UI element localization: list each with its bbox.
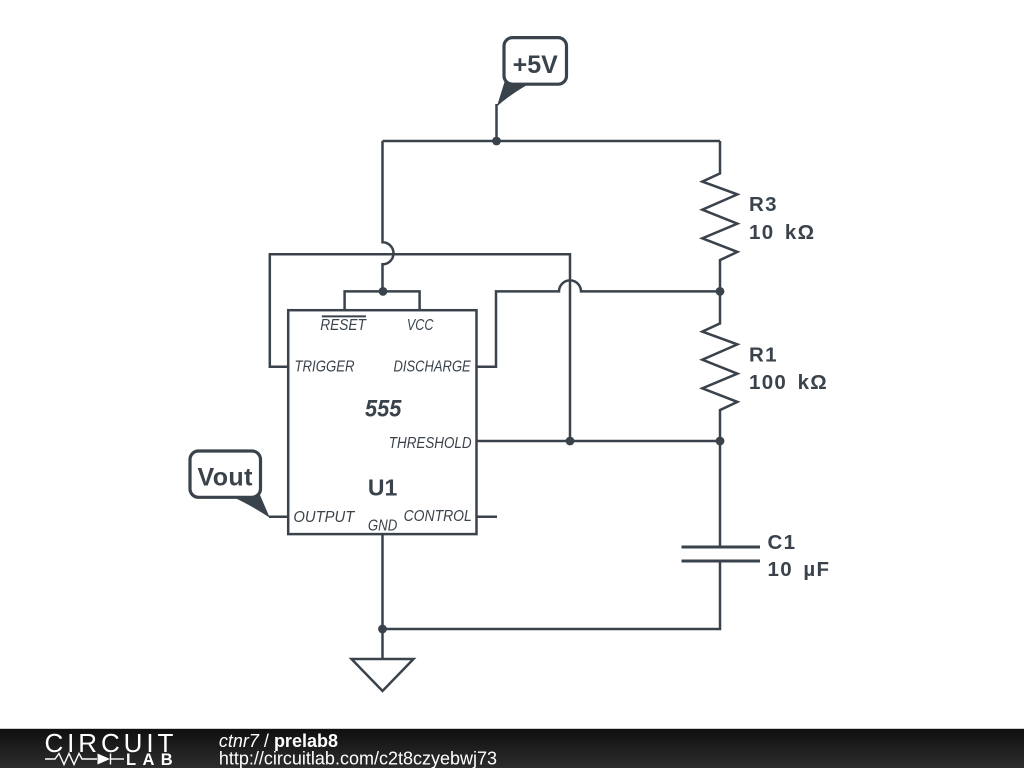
- svg-text:CONTROL: CONTROL: [404, 508, 472, 525]
- svg-text:10 µF: 10 µF: [768, 558, 831, 581]
- svg-text:R3: R3: [749, 193, 778, 216]
- svg-text:Vout: Vout: [198, 463, 254, 491]
- svg-text:OUTPUT: OUTPUT: [293, 509, 355, 526]
- svg-text:VCC: VCC: [407, 317, 434, 334]
- svg-text:R1: R1: [749, 344, 778, 367]
- svg-text:U1: U1: [368, 474, 398, 500]
- svg-text:10 kΩ: 10 kΩ: [749, 221, 815, 244]
- svg-text:100 kΩ: 100 kΩ: [749, 371, 828, 394]
- svg-text:+5V: +5V: [513, 51, 559, 79]
- svg-text:GND: GND: [368, 518, 398, 535]
- svg-text:http://circuitlab.com/c2t8czye: http://circuitlab.com/c2t8czyebwj73: [219, 748, 497, 768]
- svg-text:TRIGGER: TRIGGER: [295, 359, 355, 376]
- svg-text:555: 555: [365, 396, 402, 423]
- svg-text:C1: C1: [768, 531, 797, 554]
- svg-text:RESET: RESET: [320, 317, 367, 334]
- svg-text:DISCHARGE: DISCHARGE: [394, 359, 471, 376]
- svg-text:LAB: LAB: [126, 751, 179, 768]
- svg-text:THRESHOLD: THRESHOLD: [389, 435, 472, 452]
